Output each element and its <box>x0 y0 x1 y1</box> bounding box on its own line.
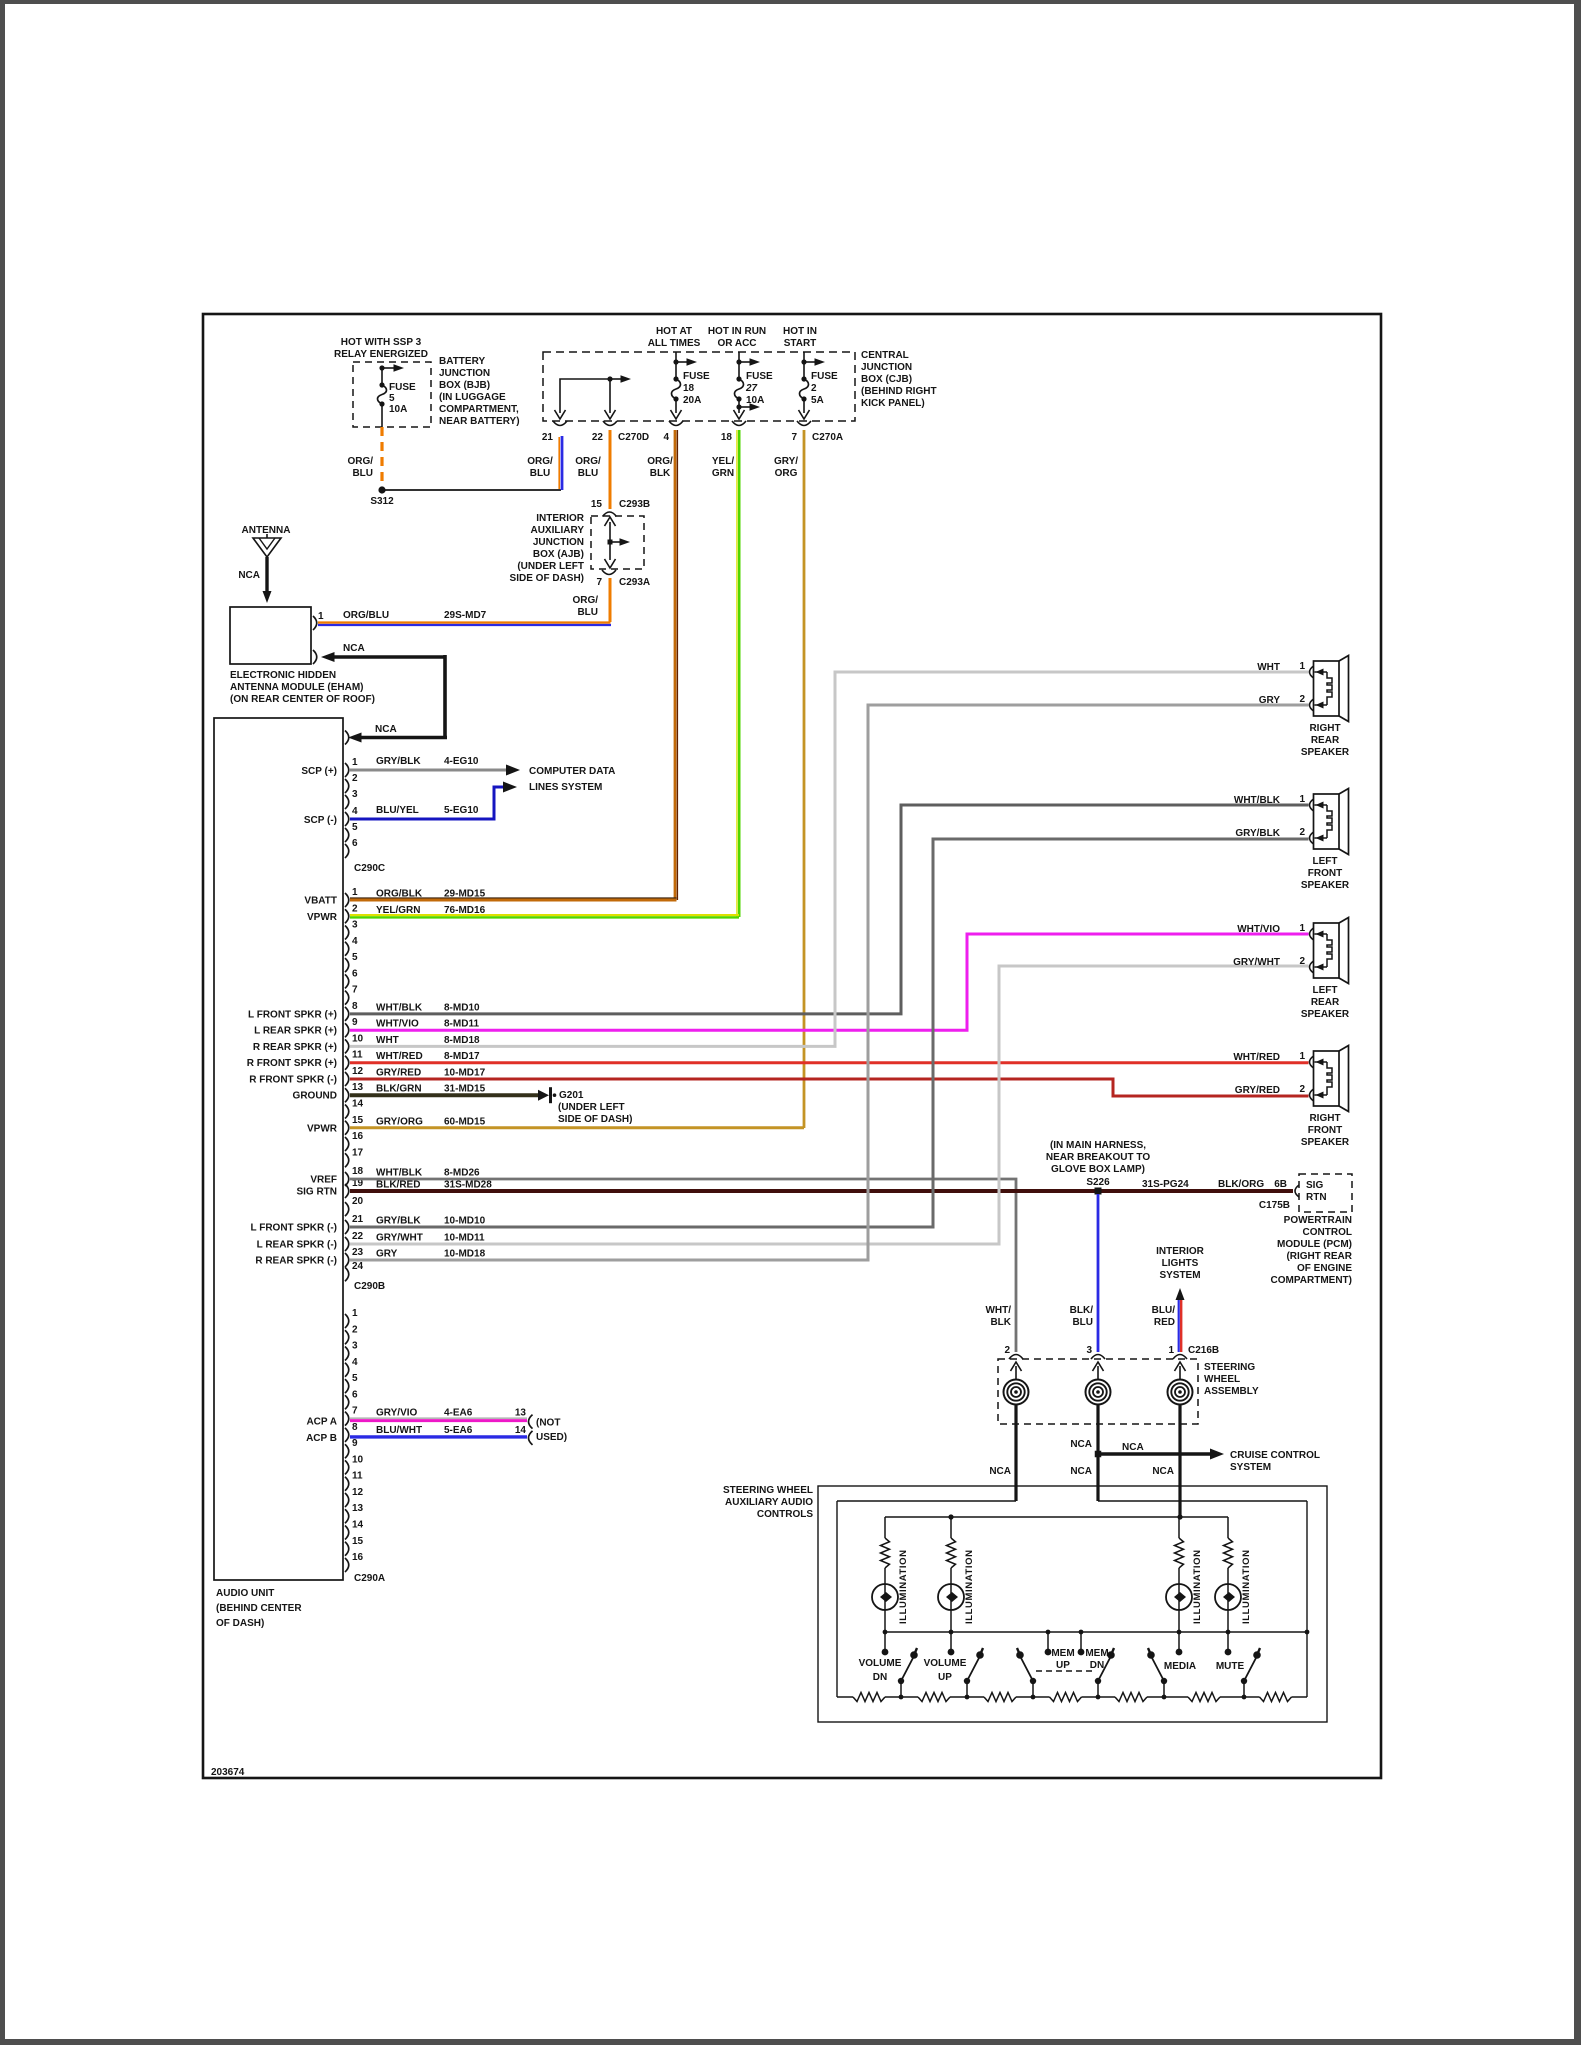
svg-text:4: 4 <box>663 432 669 443</box>
svg-text:VOLUME: VOLUME <box>859 1658 902 1669</box>
svg-text:JUNCTION: JUNCTION <box>861 362 912 373</box>
wire NCA junction to audio unit <box>345 731 349 745</box>
svg-text:21: 21 <box>542 432 554 443</box>
svg-text:5: 5 <box>352 822 358 833</box>
svg-text:13: 13 <box>352 1082 364 1093</box>
resistor R5 in switch resistor chain <box>1098 1696 1115 1698</box>
svg-text:ORG/: ORG/ <box>572 595 598 606</box>
svg-text:14: 14 <box>352 1099 364 1110</box>
svg-text:GRY/: GRY/ <box>774 456 798 467</box>
svg-text:CONTROLS: CONTROLS <box>757 1509 813 1520</box>
connector C290A pins 1-16 <box>345 1314 349 1328</box>
svg-text:BLK: BLK <box>650 468 671 479</box>
svg-text:FUSE: FUSE <box>746 371 773 382</box>
svg-text:C293A: C293A <box>619 577 650 588</box>
svg-text:BLU: BLU <box>577 607 598 618</box>
svg-text:1: 1 <box>1299 794 1305 805</box>
svg-text:1: 1 <box>352 887 358 898</box>
resistor R4 in switch resistor chain <box>1033 1696 1050 1698</box>
svg-text:MEDIA: MEDIA <box>1164 1661 1196 1672</box>
electronic hidden antenna module EHAM box <box>230 607 311 664</box>
svg-text:LEFT: LEFT <box>1313 856 1338 867</box>
svg-text:GRY/ORG: GRY/ORG <box>376 1116 423 1127</box>
svg-text:DN: DN <box>873 1672 887 1683</box>
svg-text:NCA: NCA <box>1122 1442 1144 1453</box>
svg-text:CRUISE CONTROL: CRUISE CONTROL <box>1230 1450 1320 1461</box>
controls inner box edges <box>837 1500 1016 1502</box>
svg-text:BLU: BLU <box>578 468 599 479</box>
svg-text:15: 15 <box>352 1115 364 1126</box>
wire GRY/ORG pin7 vertical <box>803 430 806 1128</box>
svg-text:21: 21 <box>352 1214 364 1225</box>
svg-text:8-MD10: 8-MD10 <box>444 1002 480 1013</box>
wire ORG/BLU pin22 to AJB <box>609 430 612 509</box>
svg-text:WHT/VIO: WHT/VIO <box>1237 924 1280 935</box>
svg-text:AUXILIARY AUDIO: AUXILIARY AUDIO <box>725 1497 813 1508</box>
svg-text:MEM: MEM <box>1085 1648 1108 1659</box>
svg-text:18: 18 <box>352 1166 364 1177</box>
svg-text:CENTRAL: CENTRAL <box>861 350 909 361</box>
svg-text:BLU/: BLU/ <box>1152 1305 1176 1316</box>
svg-text:YEL/GRN: YEL/GRN <box>376 905 420 916</box>
svg-text:ASSEMBLY: ASSEMBLY <box>1204 1386 1259 1397</box>
connector C293A pin 7 <box>602 570 616 575</box>
wire ORG/BLU from AJB pin 7 to EHAM <box>609 578 612 622</box>
steering wheel assembly box (dashed) <box>998 1359 1198 1424</box>
svg-text:8-MD11: 8-MD11 <box>444 1019 479 1030</box>
svg-text:LEFT: LEFT <box>1313 985 1338 996</box>
svg-text:VBATT: VBATT <box>304 896 337 907</box>
svg-text:NCA: NCA <box>375 724 397 735</box>
switch MEDIA <box>1151 1656 1164 1681</box>
svg-text:NEAR BATTERY): NEAR BATTERY) <box>439 416 520 427</box>
svg-text:C175B: C175B <box>1259 1200 1290 1211</box>
svg-text:BOX (AJB): BOX (AJB) <box>533 549 584 560</box>
svg-text:(RIGHT REAR: (RIGHT REAR <box>1286 1251 1352 1262</box>
switch terminal stub x=1179 <box>1178 1632 1180 1650</box>
svg-text:12: 12 <box>352 1487 364 1498</box>
svg-text:6B: 6B <box>1274 1179 1287 1190</box>
svg-text:BLK/ORG: BLK/ORG <box>1218 1179 1264 1190</box>
svg-text:ALL TIMES: ALL TIMES <box>648 338 701 349</box>
svg-text:WHT/BLK: WHT/BLK <box>376 1002 423 1013</box>
svg-text:GRY/BLK: GRY/BLK <box>1235 828 1280 839</box>
svg-text:HOT AT: HOT AT <box>656 326 692 337</box>
svg-text:14: 14 <box>352 1520 364 1531</box>
svg-text:2: 2 <box>352 903 358 914</box>
svg-text:SCP (-): SCP (-) <box>304 815 337 826</box>
svg-text:R REAR SPKR (+): R REAR SPKR (+) <box>253 1042 337 1053</box>
svg-text:22: 22 <box>352 1231 364 1242</box>
clockspring pin 3 <box>1093 1362 1104 1371</box>
svg-text:18: 18 <box>721 432 733 443</box>
svg-text:203674: 203674 <box>211 1767 245 1778</box>
svg-text:C270D: C270D <box>618 432 649 443</box>
svg-text:FRONT: FRONT <box>1308 1125 1342 1136</box>
switch terminal stub x=1048 <box>1047 1632 1049 1650</box>
illumination lamp at x=885 <box>872 1584 898 1610</box>
svg-text:6: 6 <box>352 838 358 849</box>
svg-text:WHEEL: WHEEL <box>1204 1374 1240 1385</box>
wire GRY/WHT 10-MD11 L rear spkr - <box>350 966 1309 1244</box>
svg-text:GRY: GRY <box>376 1249 398 1260</box>
svg-text:ORG/BLK: ORG/BLK <box>376 889 423 900</box>
svg-text:ELECTRONIC HIDDEN: ELECTRONIC HIDDEN <box>230 670 336 681</box>
svg-text:GRY: GRY <box>1259 695 1281 706</box>
svg-text:2: 2 <box>352 773 358 784</box>
svg-text:8: 8 <box>352 1422 358 1433</box>
central junction box CJB (dashed) <box>543 352 855 421</box>
svg-text:7: 7 <box>791 432 797 443</box>
junction on switch bus x=1228 <box>1226 1630 1231 1635</box>
svg-text:11: 11 <box>352 1050 363 1061</box>
svg-text:VPWR: VPWR <box>307 1123 338 1134</box>
svg-text:NEAR BREAKOUT TO: NEAR BREAKOUT TO <box>1046 1152 1150 1163</box>
wire BLU/WHT 5-EA6 ACP B (not used) <box>350 1435 527 1438</box>
clockspring pin 1 <box>1175 1362 1186 1371</box>
switch VOLUME DN <box>901 1656 914 1681</box>
svg-text:START: START <box>784 338 817 349</box>
resistor R2 in switch resistor chain <box>901 1696 918 1698</box>
svg-text:20: 20 <box>352 1196 364 1207</box>
svg-text:R FRONT SPKR (-): R FRONT SPKR (-) <box>249 1075 337 1086</box>
svg-text:7: 7 <box>352 1406 358 1417</box>
svg-text:(IN MAIN HARNESS,: (IN MAIN HARNESS, <box>1050 1140 1146 1151</box>
svg-text:1: 1 <box>1299 923 1305 934</box>
wire WHT/BLK 8-MD10 L front spkr + to left front speaker <box>350 805 1309 1014</box>
connector C270A pins 4 18 7 <box>669 421 683 426</box>
wire ORG/BLK 29-MD15 VBATT <box>350 897 677 899</box>
controls outer box <box>818 1486 1327 1722</box>
svg-text:YEL/: YEL/ <box>712 456 734 467</box>
svg-text:OF DASH): OF DASH) <box>216 1618 264 1629</box>
svg-text:HOT IN RUN: HOT IN RUN <box>708 326 766 337</box>
svg-text:2: 2 <box>1299 827 1305 838</box>
svg-text:MODULE (PCM): MODULE (PCM) <box>1277 1239 1352 1250</box>
svg-text:JUNCTION: JUNCTION <box>533 537 584 548</box>
svg-text:L FRONT SPKR (+): L FRONT SPKR (+) <box>248 1009 337 1020</box>
junction on feed bus x=1180 <box>1177 1514 1182 1519</box>
junction on switch bus x=1048 <box>1046 1630 1051 1635</box>
svg-text:COMPARTMENT,: COMPARTMENT, <box>439 404 519 415</box>
svg-text:WHT/BLK: WHT/BLK <box>1234 795 1281 806</box>
svg-text:8-MD18: 8-MD18 <box>444 1035 480 1046</box>
svg-text:LINES SYSTEM: LINES SYSTEM <box>529 782 602 793</box>
wire BLK/GRN 31-MD15 ground <box>350 1093 538 1097</box>
fuse F2 5A branch <box>803 352 805 379</box>
svg-text:(BEHIND CENTER: (BEHIND CENTER <box>216 1603 302 1614</box>
svg-text:RELAY ENERGIZED: RELAY ENERGIZED <box>334 349 428 360</box>
svg-text:FUSE: FUSE <box>683 371 710 382</box>
wire YEL/GRN 76-MD16 VPWR <box>350 914 739 916</box>
svg-text:5: 5 <box>389 393 395 404</box>
svg-text:CONTROL: CONTROL <box>1303 1227 1352 1238</box>
resistor R7 in switch resistor chain <box>1244 1696 1260 1698</box>
svg-text:USED): USED) <box>536 1432 567 1443</box>
svg-text:ANTENNA: ANTENNA <box>242 525 291 536</box>
svg-text:WHT: WHT <box>1257 662 1280 673</box>
svg-text:(NOT: (NOT <box>536 1418 560 1429</box>
illumination lamp at x=1179 <box>1166 1584 1192 1610</box>
svg-text:20A: 20A <box>683 395 701 406</box>
wire NCA pin3 down with junction <box>1096 1405 1099 1502</box>
svg-text:12: 12 <box>352 1066 364 1077</box>
EHAM pin 1 <box>313 616 317 630</box>
svg-text:LIGHTS: LIGHTS <box>1162 1258 1199 1269</box>
svg-text:GRY/VIO: GRY/VIO <box>376 1408 418 1419</box>
svg-text:7: 7 <box>596 577 602 588</box>
svg-text:1: 1 <box>1299 661 1305 672</box>
svg-text:STEERING WHEEL: STEERING WHEEL <box>723 1485 813 1496</box>
svg-text:2: 2 <box>1299 956 1305 967</box>
svg-text:VPWR: VPWR <box>307 912 338 923</box>
wire WHT/BLK 8-MD26 VREF to steering wheel <box>350 1179 1016 1352</box>
svg-text:FUSE: FUSE <box>811 371 838 382</box>
svg-text:S226: S226 <box>1086 1177 1110 1188</box>
svg-text:ILLUMINATION: ILLUMINATION <box>1192 1549 1203 1624</box>
connector C290B pins 1-24 <box>345 893 349 907</box>
svg-text:INTERIOR: INTERIOR <box>536 513 585 524</box>
svg-text:3: 3 <box>352 920 358 931</box>
svg-text:10-MD11: 10-MD11 <box>444 1233 485 1244</box>
svg-text:5A: 5A <box>811 395 824 406</box>
junction on switch bus x=1081 <box>1079 1630 1084 1635</box>
wire BLK/BLU from S226 to steering pin 3 <box>1097 1194 1100 1352</box>
svg-text:(BEHIND RIGHT: (BEHIND RIGHT <box>861 386 937 397</box>
junction on switch bus x=1307 <box>1305 1630 1310 1635</box>
switch VOLUME UP <box>967 1656 980 1681</box>
svg-text:31S-PG24: 31S-PG24 <box>1142 1179 1189 1190</box>
svg-text:4-EA6: 4-EA6 <box>444 1408 473 1419</box>
wire NCA pin1 down to illumination bus <box>1178 1405 1181 1518</box>
resistor R3 in switch resistor chain <box>967 1696 984 1698</box>
illumination branch resistor at x=951 <box>950 1517 952 1538</box>
svg-text:2: 2 <box>1299 694 1305 705</box>
wire YEL/GRN pin18 vertical <box>738 430 741 917</box>
svg-text:WHT/BLK: WHT/BLK <box>376 1168 423 1179</box>
splice S312 <box>378 486 385 493</box>
svg-text:SYSTEM: SYSTEM <box>1230 1462 1271 1473</box>
wire GRY/RED 10-MD17 R front spkr - <box>350 1079 1309 1096</box>
svg-text:GRY/RED: GRY/RED <box>376 1068 421 1079</box>
junction on switch bus x=1179 <box>1177 1630 1182 1635</box>
illumination branch resistor at x=1179 <box>1178 1517 1180 1538</box>
svg-text:24: 24 <box>352 1261 364 1272</box>
svg-text:BOX (BJB): BOX (BJB) <box>439 380 490 391</box>
svg-text:BATTERY: BATTERY <box>439 356 485 367</box>
svg-text:BLU: BLU <box>530 468 551 479</box>
svg-text:SPEAKER: SPEAKER <box>1301 1137 1350 1148</box>
svg-text:GRY/RED: GRY/RED <box>1235 1085 1280 1096</box>
svg-text:BLU/YEL: BLU/YEL <box>376 805 419 816</box>
svg-text:MEM: MEM <box>1051 1648 1074 1659</box>
svg-text:RIGHT: RIGHT <box>1309 723 1340 734</box>
svg-text:(IN LUGGAGE: (IN LUGGAGE <box>439 392 506 403</box>
illumination branch resistor at x=1228 <box>1227 1517 1229 1538</box>
svg-text:16: 16 <box>352 1552 364 1563</box>
svg-text:R FRONT SPKR (+): R FRONT SPKR (+) <box>247 1058 337 1069</box>
svg-text:STEERING: STEERING <box>1204 1362 1255 1373</box>
svg-text:BOX (CJB): BOX (CJB) <box>861 374 912 385</box>
svg-text:BLU/WHT: BLU/WHT <box>376 1425 422 1436</box>
switch terminal stub x=1228 <box>1227 1632 1229 1650</box>
svg-text:2: 2 <box>811 383 817 394</box>
svg-text:5: 5 <box>352 1373 358 1384</box>
svg-text:ORG: ORG <box>775 468 798 479</box>
svg-text:8-MD26: 8-MD26 <box>444 1168 480 1179</box>
svg-text:C290A: C290A <box>354 1573 385 1584</box>
speaker LEFT REAR SPEAKER <box>1314 923 1340 978</box>
wire GRY 10-MD18 R rear spkr - <box>350 705 1309 1260</box>
svg-text:14: 14 <box>515 1425 527 1436</box>
svg-text:ACP B: ACP B <box>306 1433 337 1444</box>
wire ORG/BLK pin4 vertical <box>674 430 677 900</box>
svg-text:5: 5 <box>352 952 358 963</box>
svg-text:5-EA6: 5-EA6 <box>444 1425 473 1436</box>
svg-text:ORG/: ORG/ <box>347 456 373 467</box>
wire WHT/VIO 8-MD11 L rear spkr + to left rear speaker <box>350 934 1309 1030</box>
svg-text:RED: RED <box>1154 1317 1175 1328</box>
svg-text:10-MD10: 10-MD10 <box>444 1216 486 1227</box>
svg-text:4-EG10: 4-EG10 <box>444 756 479 767</box>
wire WHT/RED 8-MD17 R front spkr + to right front speaker <box>350 1061 1309 1064</box>
svg-text:10-MD18: 10-MD18 <box>444 1249 486 1260</box>
gray page frame <box>0 0 1581 4</box>
resistor R1 in switch resistor chain <box>837 1696 853 1698</box>
svg-text:FRONT: FRONT <box>1308 868 1342 879</box>
svg-text:3: 3 <box>352 1341 358 1352</box>
svg-text:SIDE OF DASH): SIDE OF DASH) <box>510 573 584 584</box>
wire GRY/BLK 10-MD10 L front spkr - <box>350 839 1309 1227</box>
svg-text:1: 1 <box>352 1308 358 1319</box>
svg-text:17: 17 <box>352 1147 364 1158</box>
svg-text:ORG/: ORG/ <box>647 456 673 467</box>
svg-text:1: 1 <box>318 611 324 622</box>
svg-text:MUTE: MUTE <box>1216 1661 1245 1672</box>
svg-text:NCA: NCA <box>238 570 260 581</box>
svg-text:GRY/BLK: GRY/BLK <box>376 756 421 767</box>
svg-text:UP: UP <box>1056 1660 1070 1671</box>
svg-text:BLU: BLU <box>352 468 373 479</box>
svg-text:31S-MD28: 31S-MD28 <box>444 1180 492 1191</box>
illumination branch resistor at x=885 <box>884 1517 886 1538</box>
switch terminal stub x=951 <box>950 1632 952 1650</box>
AJB box (dashed) <box>591 516 644 569</box>
svg-text:BLK: BLK <box>990 1317 1011 1328</box>
svg-text:C290C: C290C <box>354 863 385 874</box>
svg-text:SPEAKER: SPEAKER <box>1301 747 1350 758</box>
svg-text:GLOVE BOX LAMP): GLOVE BOX LAMP) <box>1051 1164 1145 1175</box>
svg-text:INTERIOR: INTERIOR <box>1156 1246 1205 1257</box>
wire BLU/YEL 5-BG10 SCP- <box>350 787 504 819</box>
wire GRY/ORG 60-MD15 VPWR <box>350 1126 804 1129</box>
svg-text:8-MD17: 8-MD17 <box>444 1051 480 1062</box>
svg-text:2: 2 <box>1004 1345 1010 1356</box>
svg-text:C293B: C293B <box>619 499 650 510</box>
wire NCA to cruise control system <box>1101 1452 1212 1455</box>
svg-text:BLK/RED: BLK/RED <box>376 1180 420 1191</box>
switch terminal stub x=885 <box>884 1632 886 1650</box>
svg-text:ILLUMINATION: ILLUMINATION <box>964 1549 975 1624</box>
connector C270D pins 21 22 <box>553 421 567 426</box>
svg-text:ILLUMINATION: ILLUMINATION <box>1241 1549 1252 1624</box>
svg-text:BLU: BLU <box>1072 1317 1093 1328</box>
speaker RIGHT FRONT SPEAKER <box>1314 1051 1340 1106</box>
svg-text:REAR: REAR <box>1311 735 1340 746</box>
svg-text:WHT/VIO: WHT/VIO <box>376 1019 419 1030</box>
svg-text:NCA: NCA <box>1070 1466 1092 1477</box>
svg-text:8: 8 <box>352 1001 358 1012</box>
svg-text:GRY/WHT: GRY/WHT <box>376 1233 423 1244</box>
wire ORG/BLU dashed from fuse 5 <box>380 427 383 488</box>
svg-text:AUDIO UNIT: AUDIO UNIT <box>216 1588 274 1599</box>
svg-text:3: 3 <box>352 789 358 800</box>
svg-text:WHT: WHT <box>376 1035 399 1046</box>
svg-text:RIGHT: RIGHT <box>1309 1113 1340 1124</box>
CJB internal bracket to pins 21 and 22 <box>560 379 610 413</box>
svg-text:SIG: SIG <box>1306 1180 1323 1191</box>
svg-text:L REAR SPKR (+): L REAR SPKR (+) <box>254 1026 337 1037</box>
svg-text:ORG/: ORG/ <box>527 456 553 467</box>
svg-text:COMPARTMENT): COMPARTMENT) <box>1271 1275 1352 1286</box>
svg-text:UP: UP <box>938 1672 952 1683</box>
clockspring pin 2 <box>1011 1362 1022 1371</box>
svg-text:6: 6 <box>352 1389 358 1400</box>
wire BLK/RED 31S-MD28 sig rtn to PCM <box>350 1189 1293 1193</box>
svg-text:L FRONT SPKR (-): L FRONT SPKR (-) <box>251 1223 337 1234</box>
svg-text:L REAR SPKR (-): L REAR SPKR (-) <box>257 1240 337 1251</box>
svg-text:1: 1 <box>1299 1051 1305 1062</box>
svg-text:VREF: VREF <box>310 1175 337 1186</box>
svg-text:ORG/BLU: ORG/BLU <box>343 610 389 621</box>
svg-text:10A: 10A <box>746 395 764 406</box>
svg-text:29S-MD7: 29S-MD7 <box>444 610 487 621</box>
svg-text:4: 4 <box>352 936 358 947</box>
svg-text:(UNDER LEFT: (UNDER LEFT <box>517 561 584 572</box>
wire BLU/RED steering pin 1 to interior lights <box>1178 1296 1180 1352</box>
svg-text:SIG RTN: SIG RTN <box>296 1187 337 1198</box>
wire GRY/BLK 4-BG10 SCP+ to computer data lines <box>350 769 507 772</box>
svg-text:13: 13 <box>515 1408 527 1419</box>
svg-text:SYSTEM: SYSTEM <box>1159 1270 1200 1281</box>
svg-text:WHT/RED: WHT/RED <box>376 1051 423 1062</box>
svg-text:23: 23 <box>352 1247 364 1258</box>
svg-text:R REAR SPKR (-): R REAR SPKR (-) <box>255 1256 337 1267</box>
mechanical link MEM switches (dashed) <box>1036 1670 1095 1672</box>
svg-text:POWERTRAIN: POWERTRAIN <box>1284 1215 1352 1226</box>
illumination lamp at x=951 <box>938 1584 964 1610</box>
switch MEM UP <box>1020 1656 1033 1681</box>
svg-text:13: 13 <box>352 1503 364 1514</box>
svg-text:GRY/WHT: GRY/WHT <box>1233 957 1280 968</box>
svg-text:2: 2 <box>352 1324 358 1335</box>
svg-text:ILLUMINATION: ILLUMINATION <box>898 1549 909 1624</box>
svg-text:5-EG10: 5-EG10 <box>444 805 479 816</box>
svg-text:9: 9 <box>352 1017 358 1028</box>
svg-text:(ON REAR CENTER OF ROOF): (ON REAR CENTER OF ROOF) <box>230 694 375 705</box>
switch common bus wire <box>885 1631 1307 1633</box>
powertrain control module PCM box (dashed) <box>1299 1174 1352 1212</box>
svg-text:4: 4 <box>352 806 358 817</box>
svg-text:OR ACC: OR ACC <box>717 338 756 349</box>
switch MEM DN <box>1098 1656 1111 1681</box>
ground G201 <box>538 1090 549 1101</box>
svg-text:WHT/: WHT/ <box>985 1305 1011 1316</box>
svg-text:GRN: GRN <box>712 468 734 479</box>
svg-text:GRY/BLK: GRY/BLK <box>376 1216 421 1227</box>
svg-text:KICK PANEL): KICK PANEL) <box>861 398 925 409</box>
svg-text:C270A: C270A <box>812 432 843 443</box>
